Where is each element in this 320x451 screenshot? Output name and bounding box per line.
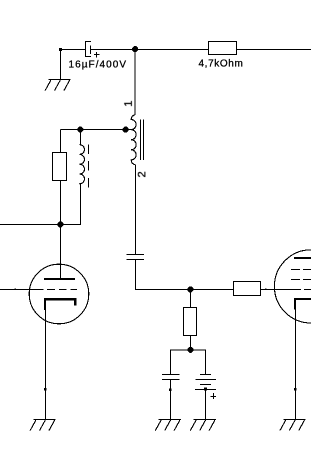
pin dot C4 wire [204,388,207,391]
pin dot V2 cathode wire [294,388,297,391]
capacitor C2 [162,375,179,380]
wire R1 bottom to junction [59,180,61,224]
wire junction down to choke L1 [79,130,81,145]
resistor R2 grid stopper [234,282,261,296]
choke L1 coil [80,145,85,185]
choke dashed core [88,144,90,187]
resistor R3 grid leak [184,308,197,336]
resistor R 4,7kOhm [209,42,237,55]
wire top rail left segment [60,48,86,50]
wire junction to C4 branch [190,350,205,374]
wire grid row dashed tail into right tube [304,288,311,290]
transformer core lines [141,119,144,160]
wire anode drop V1 [59,224,61,278]
junction diamond top rail [132,46,138,52]
pin tick R2 output [265,289,267,291]
wire tap horizontal [60,129,131,131]
pin square top-left corner [59,48,62,51]
junction diamond grid row node [187,286,193,292]
wire drop to ground G1 [59,49,61,80]
capacitor C4 electrolytic [195,375,216,399]
coupling capacitor C3 [127,255,145,260]
junction diamond tap node [123,127,129,133]
wire V2 cathode to ground [294,309,296,419]
tube V1 triode envelope [29,264,89,324]
wire coupling cap to grid row [135,260,301,290]
wire V1 cathode to ground [44,309,46,419]
junction diamond cap branch node [187,347,193,353]
wire tap corner down to R1 [59,130,61,153]
wire junction to C2 branch [171,350,191,374]
svg-text:16µF/400V: 16µF/400V [69,59,128,70]
ground G4 below C4 [190,420,216,431]
wire C2 to ground [170,379,172,419]
ground G1 top left [45,80,71,91]
svg-text:2: 2 [136,171,148,177]
wire top rail right segment [90,48,311,50]
wire transformer bottom to coupling cap [134,165,136,254]
tube V2 pentode envelope [274,250,320,323]
wire junction to transformer [134,49,136,115]
pin dot C2 wire [169,389,172,392]
wire choke bottom to bottom rail [0,184,80,224]
capacitor C1 16uF/400V electrolytic [86,42,100,58]
tube V1 grid dashes [47,288,77,290]
tube V1 anode bar [44,278,75,280]
pin dot V1 cathode wire [44,388,47,391]
wire R3 to junction [189,335,191,350]
transformer TR1 primary coil [131,115,136,165]
wire grid lead V1 from left edge [0,288,43,290]
junction diamond choke top [77,127,83,133]
tube V2 screen grid dashes [291,270,311,280]
tube V1 cathode [44,298,77,310]
resistor R1 [53,153,67,181]
svg-text:4,7kOhm: 4,7kOhm [199,58,244,69]
wire C4 to ground [205,389,207,420]
pin tick grid lead V1 [15,289,17,291]
ground G2 below V1 [30,420,56,431]
wire junction down to R3 [189,289,191,307]
ground G5 below V2 [280,419,306,430]
ground G3 below C2 [155,420,181,431]
tube V2 anode bar [294,257,311,259]
junction diamond bottom rail node [57,221,63,227]
svg-text:1: 1 [123,101,135,107]
tube V2 cathode [294,298,311,310]
